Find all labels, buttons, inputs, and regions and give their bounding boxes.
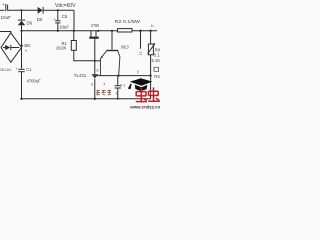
node rail-X790	[97, 30, 99, 32]
capacitor C5	[55, 10, 60, 31]
svg-text:0.1: 0.1	[120, 84, 125, 88]
svg-text:2K/2W: 2K/2W	[56, 45, 66, 50]
wire ref line	[97, 75, 151, 77]
transistor V1 X790	[89, 31, 98, 61]
capacitor C2	[115, 76, 121, 99]
node bottom TL431 anode	[94, 98, 96, 100]
wire AC input left	[0, 32, 11, 34]
svg-text:10uF: 10uF	[1, 15, 12, 20]
resistor R2 0.1/5W	[118, 29, 133, 32]
watermark red text 参考点	[96, 90, 112, 95]
transistor V2 9013	[100, 31, 120, 76]
svg-text:5.1K: 5.1K	[152, 58, 161, 63]
svg-text:Vdc=60V: Vdc=60V	[55, 3, 76, 9]
node rail-R1	[73, 30, 75, 32]
rail bottom	[22, 98, 151, 100]
node rail-C5	[57, 30, 59, 32]
wire 38V node vertical	[21, 31, 23, 69]
node bottom-C1	[20, 98, 22, 100]
watermark char chong2	[148, 87, 160, 102]
watermark logo mortarboard	[128, 78, 152, 91]
svg-text:1: 1	[103, 81, 106, 86]
svg-text:10uF: 10uF	[59, 24, 69, 29]
resistor R1 2K/2W	[71, 31, 95, 61]
svg-text:C5: C5	[62, 14, 68, 19]
node A junction	[20, 9, 22, 11]
wire top to corner	[58, 9, 74, 11]
wire base node to emitter 9013	[95, 60, 101, 62]
wire top to node A	[8, 9, 38, 11]
svg-text:+: +	[2, 2, 5, 7]
diode D5	[38, 7, 58, 14]
potentiometer RW 5.1K	[148, 31, 155, 76]
node rail-D6	[20, 30, 22, 32]
svg-text:2: 2	[91, 81, 94, 86]
wire top input	[0, 9, 5, 11]
node 38V junction	[21, 45, 23, 47]
svg-text:b: b	[151, 23, 154, 28]
wire top right corner down	[73, 10, 75, 31]
resistor R3 (mostly hidden by logo)	[151, 67, 159, 99]
svg-text:RW: RW	[155, 47, 160, 52]
svg-text:c: c	[116, 90, 118, 95]
watermark char chong1	[136, 88, 147, 102]
svg-text:5.1K: 5.1K	[154, 53, 160, 58]
TL431 U1	[92, 61, 98, 99]
node ref-RW	[150, 75, 152, 77]
node rail-9013 base	[111, 30, 113, 32]
svg-text:D6: D6	[27, 20, 33, 25]
node Vdc junction	[57, 9, 59, 11]
diode D6	[18, 10, 25, 31]
node base TL431	[94, 60, 96, 62]
node bottom-C2	[117, 98, 119, 100]
svg-text:+: +	[16, 67, 18, 71]
rail mid	[22, 30, 158, 32]
svg-text:3: 3	[96, 67, 99, 72]
svg-text:9013: 9013	[121, 44, 129, 49]
svg-text:4700uF: 4700uF	[27, 78, 42, 83]
capacitor C6 input 10uF	[6, 4, 8, 11]
svg-text:X790: X790	[91, 23, 99, 28]
svg-text:+: +	[54, 17, 56, 21]
svg-text:R3: R3	[154, 74, 160, 79]
svg-text:38V: 38V	[24, 43, 31, 48]
bridge rectifier VD1-D4	[1, 33, 22, 63]
svg-text:D5: D5	[37, 17, 43, 22]
svg-text:VD1-D4: VD1-D4	[0, 68, 11, 72]
svg-text:+: +	[25, 49, 28, 54]
svg-text:R2 0.1/5W: R2 0.1/5W	[115, 19, 142, 24]
node rail-C3	[139, 30, 141, 32]
svg-text:TL431: TL431	[74, 73, 87, 78]
svg-text:C1: C1	[26, 67, 32, 72]
capacitor C3 stub	[139, 31, 142, 55]
svg-text:www.cndzz.co: www.cndzz.co	[129, 104, 160, 110]
node ref-C2	[117, 75, 119, 77]
capacitor C1 4700uF	[18, 69, 24, 99]
node rail-RW	[149, 30, 151, 32]
